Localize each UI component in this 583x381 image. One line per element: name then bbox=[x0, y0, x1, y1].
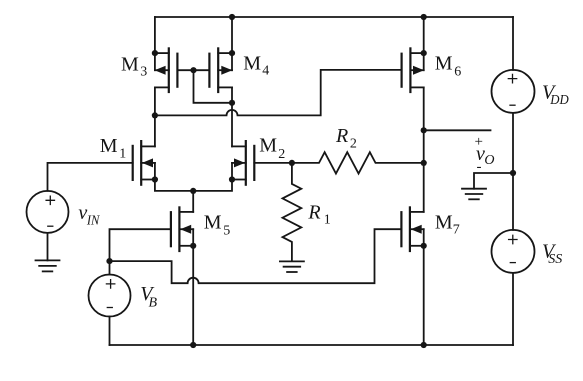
wire M5 drain column bbox=[192, 191, 194, 212]
svg-text:M: M bbox=[243, 53, 261, 75]
svg-text:M: M bbox=[435, 53, 453, 75]
node ground tap bbox=[510, 170, 516, 176]
ground vIN bbox=[36, 260, 60, 271]
node M4 drain gate tie bbox=[229, 100, 235, 106]
source VSS bbox=[492, 230, 535, 273]
wire M3 drain to M1 drain bbox=[154, 87, 156, 146]
node vO junction bbox=[421, 127, 427, 133]
wire M4 source to rail bbox=[231, 17, 233, 53]
node gate junction bbox=[190, 67, 196, 73]
svg-text:5: 5 bbox=[223, 224, 230, 239]
wire vIN to M1 gate bbox=[48, 163, 133, 191]
node R2 output junction bbox=[421, 160, 427, 166]
wire VSS minus to bottom rail bbox=[512, 273, 514, 345]
svg-text:SS: SS bbox=[548, 252, 562, 267]
svg-text:4: 4 bbox=[262, 64, 269, 79]
svg-text:2: 2 bbox=[350, 137, 357, 152]
svg-text:7: 7 bbox=[453, 223, 460, 238]
wire M5 source to bottom rail bbox=[192, 246, 194, 345]
wire M4 drain to M2 drain bbox=[231, 87, 233, 146]
wire M7 source to bottom rail bbox=[423, 246, 425, 345]
wire VDD minus to VSS plus bbox=[512, 113, 514, 230]
svg-text:M: M bbox=[259, 135, 277, 157]
svg-text:IN: IN bbox=[86, 213, 100, 228]
node M7 source rail bbox=[421, 342, 427, 348]
transistor M7 bbox=[401, 207, 426, 251]
svg-text:3: 3 bbox=[140, 65, 147, 80]
node M5 source rail bbox=[190, 342, 196, 348]
wire output column bbox=[423, 87, 425, 211]
node VB plus junction bbox=[106, 258, 112, 264]
svg-text:M: M bbox=[435, 212, 453, 234]
wire M2 gate to node A bbox=[254, 162, 292, 164]
transistor M4 bbox=[209, 48, 235, 92]
svg-text:M: M bbox=[121, 54, 139, 76]
resistor R1 bbox=[283, 163, 302, 261]
wire ground tap bbox=[474, 173, 513, 189]
svg-text:B: B bbox=[149, 295, 158, 310]
svg-text:M: M bbox=[100, 135, 118, 157]
transistor M2 bbox=[229, 141, 254, 185]
wire VB plus stem bbox=[109, 261, 111, 274]
wire gate to M4 drain bbox=[194, 70, 233, 103]
source VDD bbox=[492, 70, 535, 113]
wire rail to VDD plus bbox=[512, 17, 514, 70]
ground R1 bbox=[280, 261, 304, 272]
wire bottom rail bbox=[110, 344, 514, 346]
transistor M6 bbox=[402, 48, 427, 92]
node tail M5 drain bbox=[190, 188, 196, 194]
node M6 rail junction bbox=[421, 14, 427, 20]
wire M6 gate with hop bbox=[155, 70, 402, 116]
svg-text:R: R bbox=[307, 202, 320, 224]
svg-text:2: 2 bbox=[278, 147, 285, 162]
transistor M3 bbox=[152, 48, 178, 92]
wire M3 source to rail bbox=[154, 17, 156, 53]
transistor M1 bbox=[133, 141, 158, 185]
source vIN bbox=[27, 191, 69, 233]
wire VB minus to bottom rail bbox=[109, 317, 111, 346]
wire vO stub bbox=[424, 129, 491, 131]
svg-text:6: 6 bbox=[454, 65, 461, 80]
wire vIN to ground bbox=[47, 233, 49, 261]
svg-text:DD: DD bbox=[549, 93, 568, 108]
wire M3 M4 gate join bbox=[177, 69, 209, 71]
wire tail bbox=[155, 180, 232, 191]
wire VB to M7 gate with hop bbox=[110, 229, 402, 283]
svg-text:1: 1 bbox=[324, 213, 331, 228]
svg-text:M: M bbox=[204, 212, 222, 234]
wire M6 source to rail bbox=[423, 17, 425, 53]
node M4 rail junction bbox=[229, 14, 235, 20]
svg-text:O: O bbox=[484, 153, 494, 168]
svg-text:1: 1 bbox=[119, 146, 126, 161]
transistor M5 bbox=[171, 207, 196, 251]
wire M5 gate to VB bbox=[110, 229, 171, 261]
resistor R2 bbox=[292, 152, 424, 173]
source VB bbox=[89, 275, 131, 317]
ground output bbox=[462, 189, 486, 200]
svg-text:R: R bbox=[335, 125, 348, 147]
node A bbox=[289, 160, 295, 166]
node first stage output bbox=[152, 112, 158, 118]
wire top rail bbox=[155, 16, 513, 18]
